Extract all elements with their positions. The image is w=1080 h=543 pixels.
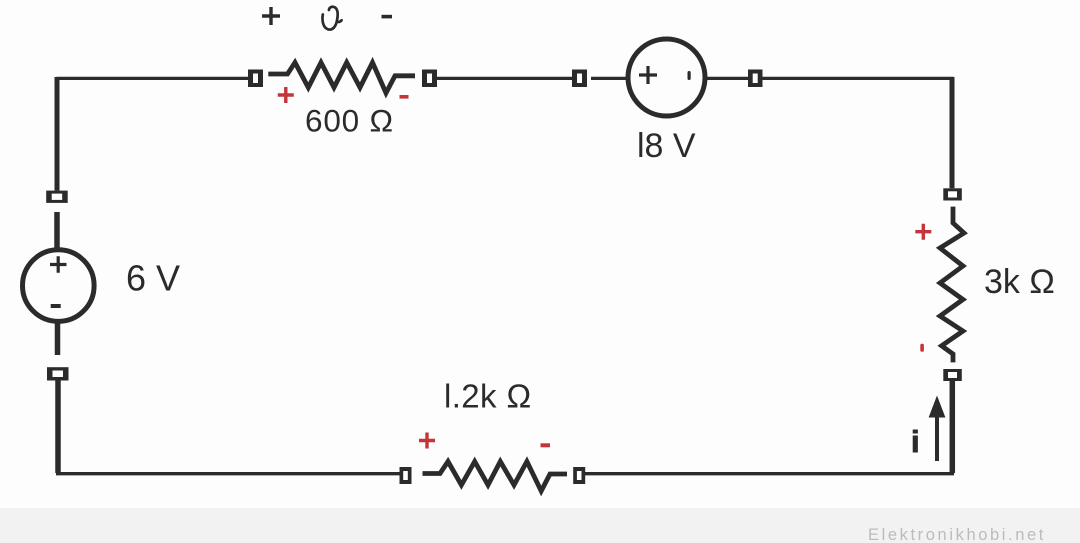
resistor R 1.2k ohm — [423, 462, 568, 492]
connector D (top wire, right of 18V) — [748, 70, 763, 88]
minus tick inside 18V — [688, 71, 691, 80]
wire 18V source to connector D — [704, 77, 748, 80]
wire left connector L2 to bottom-left corner — [55, 381, 61, 474]
wire top middle (connector B to connector C) — [437, 77, 572, 80]
wire connector C to 18V source — [591, 77, 629, 80]
svg-text:Elektronikhobi.net: Elektronikhobi.net — [868, 526, 1046, 543]
connector L1 (left wire upper) — [46, 191, 67, 203]
wire left vertical upper — [55, 77, 60, 191]
label plus above 600ohm — [262, 7, 280, 25]
connector A (top wire, left of 600ohm) — [248, 70, 263, 88]
svg-text:l8 V: l8 V — [637, 127, 696, 165]
minus sign inside 6V — [51, 304, 61, 308]
connector R1 (right wire upper) — [943, 188, 962, 200]
red minus at 1.2k right — [541, 443, 551, 447]
wire right vertical upper — [950, 77, 955, 188]
resistor R 3k ohm (vertical) — [940, 207, 964, 363]
red minus at 600ohm right — [400, 95, 409, 99]
wire connector D to top-right corner — [762, 77, 954, 80]
wire bottom left segment — [56, 472, 400, 475]
wire bottom right segment — [585, 472, 954, 475]
plus sign inside 6V — [50, 256, 67, 273]
wire top-left horizontal — [57, 77, 249, 80]
connector R2 (right wire lower) — [943, 369, 962, 381]
svg-text:l.2k Ω: l.2k Ω — [444, 378, 532, 415]
current arrow i — [929, 396, 946, 462]
resistor R 600 ohm — [268, 63, 415, 94]
svg-text:3k Ω: 3k Ω — [984, 263, 1055, 301]
connector C (top wire, left of 18V) — [572, 70, 587, 88]
label theta (voltage v) above 600ohm — [322, 7, 341, 30]
red plus at 1.2k left — [419, 433, 435, 449]
plus sign inside 18V — [639, 66, 657, 84]
svg-text:i: i — [911, 424, 920, 459]
connector F (bottom wire, right of 1.2k) — [573, 467, 585, 484]
voltage source U2 6V circle — [23, 250, 95, 322]
svg-text:6 V: 6 V — [126, 258, 180, 299]
svg-text:600 Ω: 600 Ω — [305, 103, 394, 139]
red minus at 3k bottom — [920, 344, 924, 352]
connector B (top wire, right of 600ohm) — [422, 70, 437, 88]
red plus at 600ohm left — [278, 87, 294, 103]
footer strip — [0, 508, 1080, 543]
wire left connector L1 to 6V source — [54, 212, 60, 249]
voltage source U1 18V circle — [628, 39, 705, 116]
label minus above 600ohm — [382, 15, 393, 19]
connector L2 (left wire lower) — [47, 367, 69, 380]
red plus at 3k top — [915, 224, 931, 240]
wire right connector R2 to bottom-right corner — [950, 381, 956, 473]
wire 6V source to gap — [55, 322, 61, 355]
connector E (bottom wire, left of 1.2k) — [400, 467, 412, 484]
